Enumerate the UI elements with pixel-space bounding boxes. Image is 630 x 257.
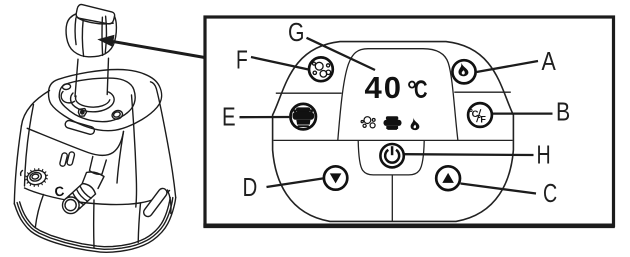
column left edge bbox=[75, 59, 78, 96]
center connector neck bbox=[83, 184, 96, 195]
left divider bbox=[276, 92, 342, 94]
svg-text:C: C bbox=[414, 76, 428, 104]
button F (bubbles) bbox=[309, 57, 333, 81]
degree mark of F bbox=[478, 115, 480, 117]
svg-text:G: G bbox=[288, 17, 305, 47]
front slot bbox=[64, 120, 95, 136]
left connector cap bbox=[26, 169, 47, 187]
center connector barrel side A bbox=[65, 184, 82, 200]
center connector barrel side B bbox=[76, 194, 95, 212]
column right edge bbox=[107, 58, 108, 94]
leader D bbox=[267, 178, 324, 187]
base inner rim 2 bbox=[20, 197, 171, 246]
box bottom thick edge bbox=[203, 224, 614, 229]
plinth hook bbox=[61, 92, 74, 103]
center connector ribs bbox=[69, 186, 91, 208]
knob left lobe line bbox=[74, 18, 77, 45]
button B (C/F) bbox=[468, 103, 492, 127]
leader C bbox=[461, 184, 537, 194]
right divider bbox=[454, 91, 511, 93]
center connector cap inner bbox=[65, 200, 76, 211]
leader B bbox=[493, 112, 553, 114]
arrow shaft bbox=[111, 41, 204, 57]
svg-text:F: F bbox=[480, 114, 486, 124]
plinth outer bbox=[49, 69, 162, 130]
collar inner line bbox=[76, 96, 110, 107]
clip dot bbox=[81, 111, 84, 114]
left connector ribs bbox=[25, 169, 47, 187]
connector collar bbox=[82, 172, 104, 189]
body left shoulder bbox=[21, 91, 49, 127]
box frame bbox=[205, 17, 614, 226]
center connector cap bbox=[63, 197, 80, 214]
leader F bbox=[251, 57, 309, 70]
button E (steamer) bbox=[291, 104, 316, 129]
svg-text:E: E bbox=[222, 102, 236, 132]
base seam 1 bbox=[35, 195, 43, 228]
plinth hole right outer bbox=[111, 109, 124, 120]
front panel left edge bbox=[25, 105, 34, 187]
clip front-center bbox=[78, 109, 86, 117]
body right edge bbox=[151, 82, 176, 198]
svg-text:40: 40 bbox=[365, 70, 403, 105]
button D (down) bbox=[324, 166, 347, 189]
display keystone bbox=[338, 49, 458, 141]
knob top face bbox=[76, 5, 114, 24]
body bottom silhouette bbox=[14, 198, 175, 253]
power pod bbox=[358, 141, 424, 175]
plinth front bottom edge bbox=[27, 128, 123, 155]
plinth inner recess bbox=[59, 78, 135, 122]
knob front ridge 1 bbox=[82, 20, 83, 57]
vertical line below pod bbox=[391, 175, 393, 222]
finger tab 1 bbox=[59, 152, 68, 166]
body left edge bbox=[14, 126, 21, 204]
elbow pipe bbox=[90, 157, 107, 175]
degree mark of C bbox=[470, 109, 472, 111]
base seam 3 bbox=[138, 203, 140, 243]
front mid panel edge bbox=[117, 132, 124, 184]
button H (power) bbox=[380, 144, 403, 167]
divider line full width bbox=[274, 139, 513, 141]
leader H bbox=[405, 153, 534, 156]
knob rim line bbox=[76, 17, 113, 24]
tray top rim bbox=[25, 188, 170, 205]
front-right panel edge bbox=[132, 95, 137, 207]
svg-text:A: A bbox=[542, 46, 557, 76]
arrowhead bbox=[97, 35, 114, 47]
plinth hole right inner bbox=[113, 111, 121, 118]
svg-text:F: F bbox=[236, 45, 248, 75]
svg-text:D: D bbox=[243, 172, 258, 202]
knob outer bbox=[66, 14, 116, 57]
right face wave bbox=[168, 190, 172, 214]
svg-text:C: C bbox=[54, 183, 66, 199]
handle slot right face bbox=[142, 187, 169, 219]
base inner rim bbox=[17, 198, 173, 250]
leader A bbox=[477, 61, 539, 72]
svg-text:H: H bbox=[537, 140, 551, 170]
leader G bbox=[307, 38, 376, 70]
left connector inner 2 bbox=[31, 174, 39, 180]
leader E bbox=[240, 116, 291, 118]
knob right lobe line bbox=[105, 16, 106, 52]
button C (up) bbox=[436, 166, 460, 190]
panel oval bbox=[273, 42, 514, 222]
display icon: flame bbox=[411, 117, 420, 130]
finger tab 2 bbox=[67, 151, 76, 165]
svg-text:C: C bbox=[543, 178, 557, 208]
left connector stub bbox=[21, 171, 23, 176]
svg-text:B: B bbox=[556, 97, 570, 127]
collar at column base bbox=[71, 92, 115, 112]
left connector inner bbox=[29, 171, 42, 182]
display icon: bubbles bbox=[361, 117, 375, 128]
display icon: steamer bbox=[384, 116, 402, 130]
knob front ridge 2 bbox=[101, 17, 104, 55]
plinth hole left bbox=[62, 83, 71, 90]
base seam 2 bbox=[93, 200, 95, 248]
button A (flame) bbox=[452, 60, 475, 83]
